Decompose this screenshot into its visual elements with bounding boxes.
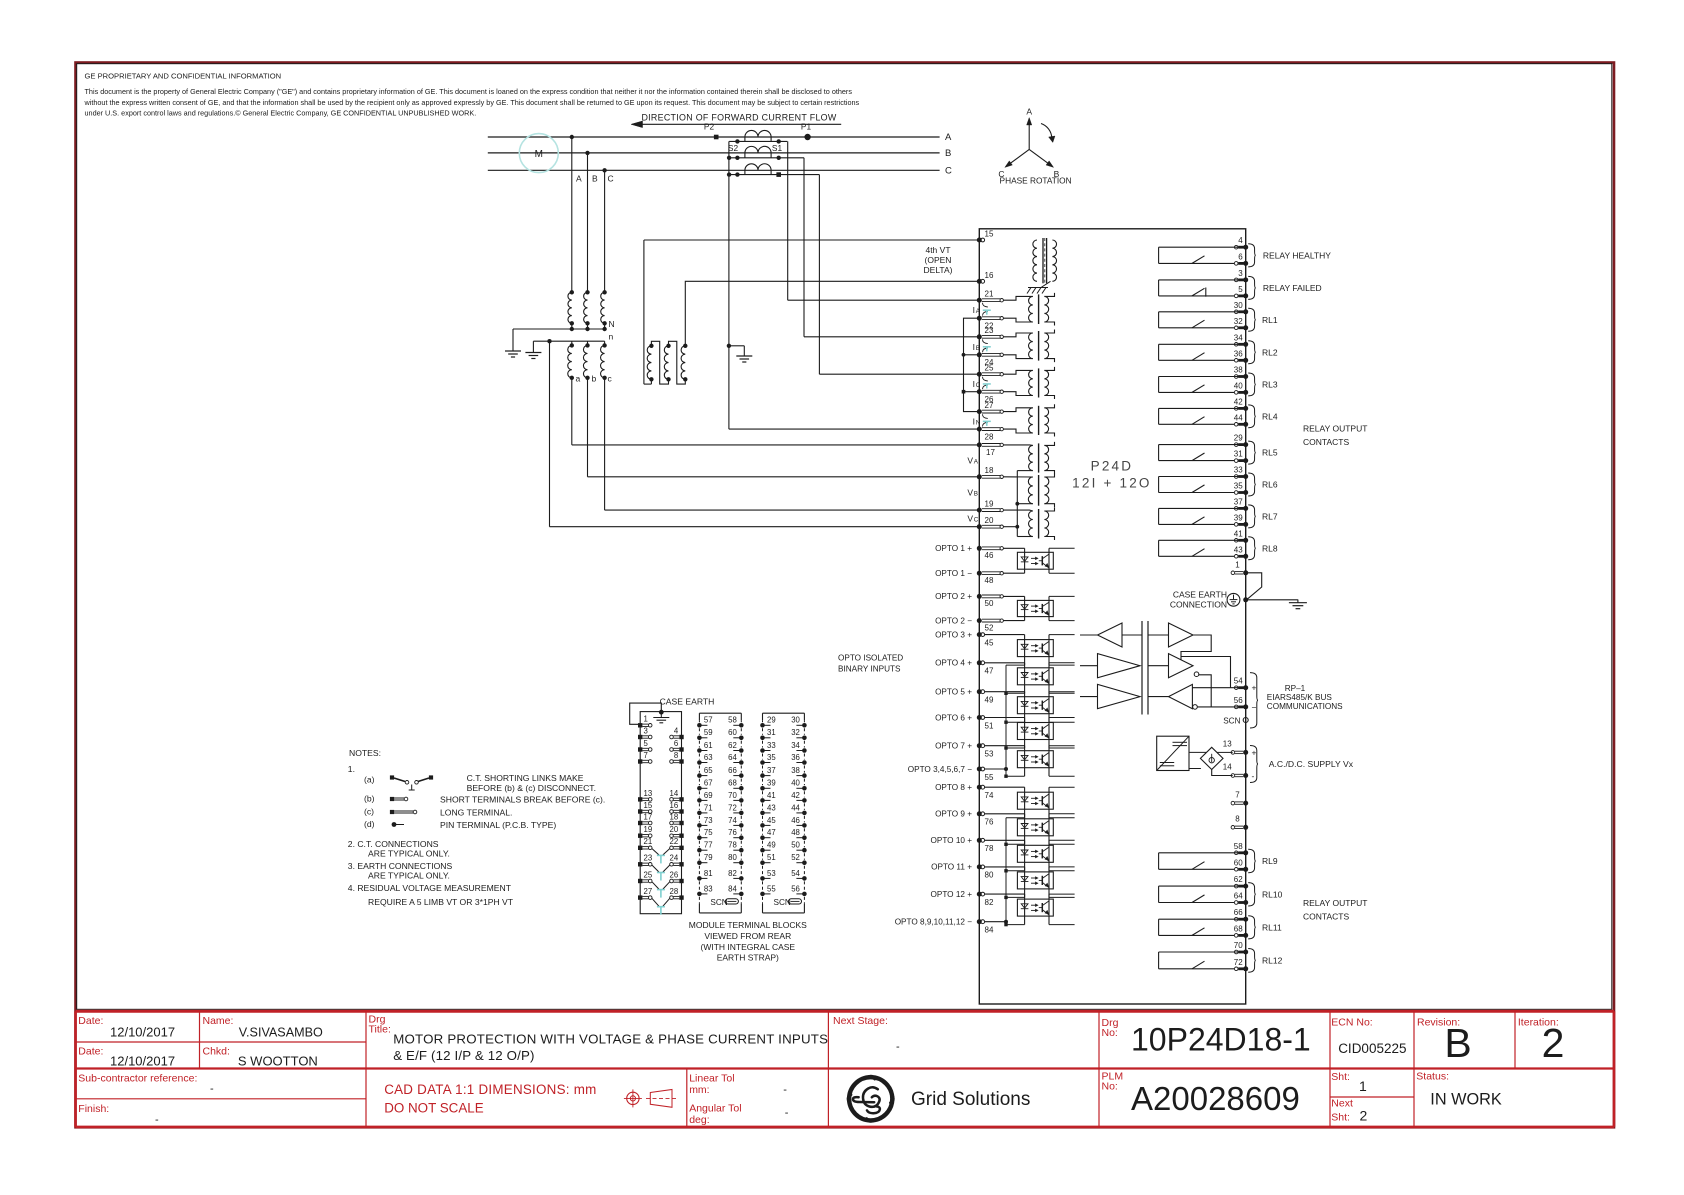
svg-text:76: 76 bbox=[728, 828, 737, 837]
svg-text:B: B bbox=[592, 174, 598, 184]
terminal 15 bbox=[977, 238, 982, 243]
svg-text:OPTO 10 +: OPTO 10 + bbox=[931, 836, 973, 845]
block 3 pin 33 bbox=[760, 748, 765, 753]
wire supply to bridge upper bbox=[1189, 751, 1206, 753]
block 3 pin 49 bbox=[760, 848, 765, 853]
relay contact RL10 terminals 62/64 bbox=[1234, 884, 1238, 888]
svg-text:82: 82 bbox=[728, 869, 737, 878]
opto input terminals 50/52 bbox=[977, 594, 982, 599]
svg-text:RELAY FAILED: RELAY FAILED bbox=[1263, 283, 1322, 293]
svg-text:OPTO 2 −: OPTO 2 − bbox=[935, 616, 972, 625]
svg-text:MODULE TERMINAL BLOCKS: MODULE TERMINAL BLOCKS bbox=[689, 920, 807, 930]
svg-text:RELAY OUTPUT: RELAY OUTPUT bbox=[1303, 424, 1367, 434]
contact RL12 bbox=[1159, 951, 1244, 953]
svg-text:29: 29 bbox=[1234, 434, 1243, 443]
svg-text:C: C bbox=[976, 382, 981, 389]
svg-text:40: 40 bbox=[1234, 381, 1243, 390]
phase rotation diagram bbox=[1028, 125, 1030, 149]
svg-text:48: 48 bbox=[791, 828, 800, 837]
svg-text:CONTACTS: CONTACTS bbox=[1303, 912, 1349, 922]
svg-text:42: 42 bbox=[791, 791, 800, 800]
block 3 pin 47 bbox=[760, 835, 765, 840]
svg-text:GE PROPRIETARY AND CONFIDENTIA: GE PROPRIETARY AND CONFIDENTIAL INFORMAT… bbox=[85, 72, 282, 81]
svg-text:78: 78 bbox=[985, 844, 994, 853]
svg-text:34: 34 bbox=[791, 741, 800, 750]
block 2 pin 79 bbox=[697, 860, 702, 865]
svg-text:30: 30 bbox=[1234, 301, 1243, 310]
svg-text:+: + bbox=[1252, 748, 1257, 758]
brace RL12 bbox=[1248, 949, 1256, 973]
svg-text:70: 70 bbox=[728, 791, 737, 800]
svg-text:(OPEN: (OPEN bbox=[925, 255, 952, 265]
brace RL1 bbox=[1248, 308, 1256, 331]
svg-text:-: - bbox=[1252, 771, 1255, 781]
svg-text:OPTO 8 +: OPTO 8 + bbox=[935, 783, 972, 792]
svg-text:+: + bbox=[1252, 683, 1257, 693]
opto input terminal 82 bbox=[977, 892, 982, 897]
opto input terminal 74 bbox=[977, 785, 982, 790]
terminal 56 bbox=[1234, 705, 1238, 709]
contact RL11 bbox=[1159, 918, 1244, 920]
svg-text:OPTO 12 +: OPTO 12 + bbox=[931, 890, 973, 899]
svg-text:DO NOT SCALE: DO NOT SCALE bbox=[384, 1101, 484, 1116]
comms isolation barrier bbox=[1141, 621, 1143, 715]
svg-text:4: 4 bbox=[674, 726, 679, 735]
svg-text:Angular Tol: Angular Tol bbox=[689, 1103, 741, 1115]
brace RL10 bbox=[1248, 883, 1256, 906]
svg-text:7: 7 bbox=[1235, 790, 1240, 799]
svg-text:43: 43 bbox=[767, 803, 776, 812]
svg-text:12I + 12O: 12I + 12O bbox=[1072, 476, 1151, 491]
contact RL2 bbox=[1159, 343, 1244, 345]
wire supply to bridge lower bbox=[1189, 768, 1201, 770]
block 3 pin 56 bbox=[802, 892, 807, 897]
block 3 pin 31 bbox=[760, 736, 765, 741]
brace RL3 bbox=[1248, 373, 1256, 396]
svg-text:66: 66 bbox=[728, 766, 737, 775]
block 3 pin 53 bbox=[760, 876, 765, 881]
svg-text:3: 3 bbox=[644, 726, 648, 735]
svg-text:P1: P1 bbox=[801, 122, 812, 132]
CT phase C secondary wire bbox=[729, 174, 819, 176]
block 2 pin 84 bbox=[739, 892, 744, 897]
contact RELAY FAILED bbox=[1159, 279, 1244, 281]
terminal 25 bbox=[977, 372, 982, 377]
svg-text:56: 56 bbox=[791, 884, 800, 893]
ground VT primary neutral bbox=[512, 329, 514, 351]
terminal 13 bbox=[1231, 751, 1235, 755]
svg-text:32: 32 bbox=[1234, 317, 1243, 326]
svg-text:N: N bbox=[976, 419, 981, 426]
svg-text:23: 23 bbox=[985, 326, 994, 335]
opto common rail bbox=[1005, 818, 1007, 925]
GE logo bbox=[849, 1077, 892, 1120]
block1 pin 23 bbox=[638, 862, 642, 866]
svg-text:49: 49 bbox=[767, 841, 776, 850]
power supply unit bbox=[1157, 736, 1189, 770]
svg-text:75: 75 bbox=[704, 828, 713, 837]
terminal 23 bbox=[977, 334, 982, 339]
svg-text:BEFORE (b) & (c) DISCONNECT.: BEFORE (b) & (c) DISCONNECT. bbox=[467, 783, 596, 793]
terminal block 3 outline bbox=[763, 712, 805, 714]
shorting link 21-22 bbox=[983, 303, 988, 307]
optocoupler OPTO at terminal 76 bbox=[985, 813, 1025, 815]
CT phase A secondary wire bbox=[729, 140, 787, 142]
svg-text:(WITH INTEGRAL CASE: (WITH INTEGRAL CASE bbox=[700, 942, 795, 952]
svg-text:NOTES:: NOTES: bbox=[349, 748, 381, 758]
svg-text:V: V bbox=[967, 455, 973, 465]
svg-text:1.: 1. bbox=[348, 764, 355, 774]
block 3 pin 40 bbox=[802, 786, 807, 791]
VT primary drop phase C bbox=[604, 170, 606, 292]
svg-text:RL6: RL6 bbox=[1262, 480, 1278, 490]
svg-text:A: A bbox=[1026, 107, 1032, 117]
block 2 pin 81 bbox=[697, 876, 702, 881]
svg-text:1: 1 bbox=[644, 715, 648, 724]
svg-text:63: 63 bbox=[704, 753, 713, 762]
svg-text:6: 6 bbox=[1238, 252, 1243, 261]
svg-text:58: 58 bbox=[1234, 842, 1243, 851]
block 3 pin 36 bbox=[802, 760, 807, 765]
svg-text:38: 38 bbox=[1234, 366, 1243, 375]
wire to terminal 14 bbox=[1212, 770, 1233, 776]
svg-text:52: 52 bbox=[985, 623, 994, 632]
svg-text:PIN TERMINAL (P.C.B. TYPE): PIN TERMINAL (P.C.B. TYPE) bbox=[440, 820, 556, 830]
terminal 21 bbox=[977, 298, 982, 303]
svg-text:a: a bbox=[576, 374, 581, 384]
block 2 pin 67 bbox=[697, 786, 702, 791]
svg-text:S WOOTTON: S WOOTTON bbox=[238, 1053, 318, 1068]
svg-text:18: 18 bbox=[670, 812, 679, 821]
wire terminal 20 to VT rail bbox=[1003, 526, 1017, 528]
VT secondary winding c bbox=[604, 341, 606, 345]
opto input terminal 78 bbox=[977, 838, 982, 843]
optocoupler OPTO 46 bbox=[1003, 547, 1024, 549]
svg-text:A: A bbox=[576, 174, 582, 184]
svg-text:RELAY OUTPUT: RELAY OUTPUT bbox=[1303, 898, 1367, 908]
brace RL11 bbox=[1248, 916, 1256, 939]
svg-text:49: 49 bbox=[985, 696, 994, 705]
block 3 pin 50 bbox=[802, 848, 807, 853]
svg-text:Sub-contractor reference:: Sub-contractor reference: bbox=[78, 1073, 197, 1085]
block1 pin 6 bbox=[679, 747, 683, 751]
svg-text:37: 37 bbox=[767, 766, 776, 775]
CT phase C S1 junction bbox=[776, 172, 781, 177]
shorting link 23-24 bbox=[983, 339, 988, 343]
brace RELAY FAILED bbox=[1248, 276, 1256, 299]
block 3 pin 39 bbox=[760, 786, 765, 791]
svg-text:73: 73 bbox=[704, 816, 713, 825]
opto common terminal 55 bbox=[977, 767, 982, 772]
block 3 pin 29 bbox=[760, 723, 765, 728]
svg-text:64: 64 bbox=[728, 753, 737, 762]
block 2 pin 59 bbox=[697, 736, 702, 741]
relay contact RL8 terminals 41/43 bbox=[1234, 539, 1238, 543]
VT secondary n bus bbox=[533, 340, 604, 342]
svg-text:4: 4 bbox=[1238, 236, 1243, 245]
opto common terminal 84 bbox=[977, 919, 982, 924]
4th VT secondary screen earth bbox=[1041, 281, 1051, 287]
block 3 pin 41 bbox=[760, 798, 765, 803]
block 3 pin 52 bbox=[802, 860, 807, 865]
block 2 pin 64 bbox=[739, 760, 744, 765]
svg-text:13: 13 bbox=[1223, 740, 1232, 749]
terminal 26 bbox=[977, 389, 982, 394]
ground VT secondary n bbox=[532, 341, 534, 352]
svg-text:−: − bbox=[1252, 703, 1257, 713]
CT phase B S1 junction bbox=[777, 156, 781, 160]
svg-text:10P24D18-1: 10P24D18-1 bbox=[1131, 1022, 1311, 1058]
svg-text:79: 79 bbox=[704, 853, 713, 862]
block1 pin 1 bbox=[638, 723, 642, 727]
svg-text:23: 23 bbox=[644, 854, 653, 863]
svg-text:48: 48 bbox=[985, 576, 994, 585]
svg-text:Finish:: Finish: bbox=[78, 1103, 109, 1115]
block1 pin 16 bbox=[679, 809, 683, 813]
svg-text:RELAY HEALTHY: RELAY HEALTHY bbox=[1263, 250, 1331, 260]
svg-text:14: 14 bbox=[1223, 763, 1232, 772]
svg-text:OPTO 8,9,10,11,12 −: OPTO 8,9,10,11,12 − bbox=[895, 918, 973, 927]
svg-text:30: 30 bbox=[791, 716, 800, 725]
svg-text:39: 39 bbox=[767, 779, 776, 788]
svg-text:61: 61 bbox=[704, 741, 713, 750]
contact RELAY HEALTHY bbox=[1159, 246, 1244, 248]
svg-text:DELTA): DELTA) bbox=[924, 265, 953, 275]
svg-text:A20028609: A20028609 bbox=[1131, 1080, 1300, 1117]
VT secondary winding a bbox=[571, 341, 573, 345]
svg-text:RL7: RL7 bbox=[1262, 511, 1278, 521]
block1 pin 17 bbox=[638, 821, 642, 825]
CT phase B coil bbox=[745, 146, 771, 153]
svg-text:under U.S. export control laws: under U.S. export control laws and regul… bbox=[85, 109, 477, 118]
svg-text:COMMUNICATIONS: COMMUNICATIONS bbox=[1267, 702, 1343, 711]
comms rx buffer bottom bbox=[1098, 684, 1141, 708]
svg-text:I: I bbox=[973, 342, 975, 352]
relay contact RL5 terminals 29/31 bbox=[1234, 443, 1238, 447]
svg-text:Name:: Name: bbox=[203, 1015, 234, 1027]
svg-text:-: - bbox=[155, 1114, 159, 1126]
opto input terminal 51 bbox=[977, 715, 982, 720]
block 3 pin 37 bbox=[760, 773, 765, 778]
open delta interconnection 2 bbox=[669, 341, 686, 384]
svg-text:41: 41 bbox=[1234, 529, 1243, 538]
svg-text:39: 39 bbox=[1234, 513, 1243, 522]
svg-text:OPTO 11 +: OPTO 11 + bbox=[931, 863, 972, 872]
VT primary neutral bus N bbox=[513, 328, 605, 330]
block 2 pin 71 bbox=[697, 811, 702, 816]
brace comms group bbox=[1250, 673, 1258, 728]
block 2 pin 83 bbox=[697, 892, 702, 897]
svg-text:1: 1 bbox=[1235, 561, 1240, 570]
terminal 16 bbox=[977, 279, 982, 284]
svg-text:OPTO 4 +: OPTO 4 + bbox=[935, 659, 972, 668]
block 2 pin 74 bbox=[739, 823, 744, 828]
svg-text:44: 44 bbox=[791, 803, 800, 812]
optocoupler OPTO at terminal 74 bbox=[985, 786, 1025, 788]
svg-text:C: C bbox=[974, 517, 979, 524]
terminal block 1 outline bbox=[640, 712, 681, 914]
svg-text:RL12: RL12 bbox=[1262, 955, 1283, 965]
svg-text:54: 54 bbox=[1234, 677, 1243, 686]
block 2 pin 60 bbox=[739, 736, 744, 741]
terminal 22 bbox=[977, 316, 982, 321]
svg-text:84: 84 bbox=[985, 926, 994, 935]
svg-text:35: 35 bbox=[1234, 482, 1243, 491]
CT phase B secondary wire bbox=[729, 157, 804, 159]
CT phase C S2 junction bbox=[735, 172, 739, 176]
svg-text:72: 72 bbox=[728, 803, 737, 812]
svg-text:IN WORK: IN WORK bbox=[1430, 1091, 1502, 1109]
block 3 pin 45 bbox=[760, 823, 765, 828]
terminal 8 bbox=[1231, 826, 1235, 830]
svg-text:V: V bbox=[967, 487, 973, 497]
svg-text:I: I bbox=[973, 416, 975, 426]
opto input terminal 45 bbox=[977, 632, 982, 637]
block 3 pin 51 bbox=[760, 860, 765, 865]
svg-text:RP–1: RP–1 bbox=[1285, 684, 1306, 693]
block 3 pin 55 bbox=[760, 892, 765, 897]
svg-text:82: 82 bbox=[985, 898, 994, 907]
optocoupler OPTO at terminal 49 bbox=[985, 691, 1025, 693]
svg-text:69: 69 bbox=[704, 791, 713, 800]
motor M bbox=[519, 134, 558, 173]
svg-text:22: 22 bbox=[670, 837, 679, 846]
svg-text:CID005225: CID005225 bbox=[1338, 1041, 1406, 1056]
block 3 pin 32 bbox=[802, 736, 807, 741]
relay contact RL12 terminals 70/72 bbox=[1234, 950, 1238, 954]
terminal 24 bbox=[977, 352, 982, 357]
svg-text:15: 15 bbox=[644, 801, 653, 810]
svg-text:(d): (d) bbox=[364, 819, 375, 829]
relay contact RELAY FAILED terminals 3/5 bbox=[1234, 278, 1238, 282]
block 3 pin 54 bbox=[802, 876, 807, 881]
svg-text:RL11: RL11 bbox=[1262, 922, 1282, 932]
terminal SCN bbox=[1243, 718, 1248, 723]
wire CT C S1 to terminal 25 bbox=[818, 175, 820, 375]
svg-text:4th VT: 4th VT bbox=[925, 245, 950, 255]
svg-text:VIEWED FROM REAR: VIEWED FROM REAR bbox=[704, 931, 791, 941]
wire CT A S1 to terminal 21 bbox=[787, 141, 789, 300]
terminal 1 case earth bbox=[1231, 571, 1235, 575]
contact RL5 bbox=[1159, 444, 1244, 446]
svg-text:67: 67 bbox=[704, 779, 713, 788]
terminal 18 bbox=[977, 474, 982, 479]
svg-text:3. EARTH CONNECTIONS: 3. EARTH CONNECTIONS bbox=[348, 861, 453, 871]
block 3 pin 42 bbox=[802, 798, 807, 803]
open delta winding 3 bbox=[683, 344, 687, 348]
svg-text:Next: Next bbox=[1331, 1098, 1353, 1110]
voltage transformer VC bbox=[1003, 509, 1033, 512]
wire to terminal 54 bbox=[1192, 687, 1243, 689]
svg-text:mm:: mm: bbox=[689, 1084, 709, 1096]
block1 CT shorting link bbox=[652, 898, 659, 906]
CT phase B S2 junction bbox=[735, 156, 739, 160]
current input transformer IB bbox=[1003, 333, 1033, 337]
svg-text:CASE EARTH: CASE EARTH bbox=[1173, 590, 1227, 600]
svg-text:46: 46 bbox=[985, 551, 994, 560]
relay contact RL9 terminals 58/60 bbox=[1234, 851, 1238, 855]
svg-text:LONG TERMINAL.: LONG TERMINAL. bbox=[440, 808, 512, 818]
svg-text:REQUIRE A 5 LIMB VT OR 3: REQUIRE A 5 LIMB VT OR 3*1PH VT bbox=[368, 897, 514, 907]
svg-text:60: 60 bbox=[728, 728, 737, 737]
svg-text:55: 55 bbox=[985, 773, 994, 782]
svg-text:CAD DATA 1:1 DIMENSIONS: mm: CAD DATA 1:1 DIMENSIONS: mm bbox=[384, 1082, 596, 1097]
contact RL8 bbox=[1159, 539, 1244, 541]
svg-text:PHASE ROTATION: PHASE ROTATION bbox=[1000, 176, 1072, 186]
svg-text:72: 72 bbox=[1234, 958, 1243, 967]
svg-text:52: 52 bbox=[791, 853, 800, 862]
opto input terminal 80 bbox=[977, 864, 982, 869]
projection symbol bbox=[627, 1092, 639, 1104]
svg-text:without the express written co: without the express written consent of G… bbox=[84, 98, 860, 107]
svg-text:74: 74 bbox=[985, 791, 994, 800]
block1 pin 8 bbox=[679, 759, 683, 763]
svg-text:RL9: RL9 bbox=[1262, 856, 1278, 866]
svg-text:n: n bbox=[609, 332, 614, 342]
svg-text:62: 62 bbox=[1234, 875, 1243, 884]
svg-text:40: 40 bbox=[791, 779, 800, 788]
svg-text:54: 54 bbox=[791, 869, 800, 878]
contact RL4 bbox=[1159, 407, 1244, 409]
svg-text:32: 32 bbox=[791, 728, 800, 737]
junction n drop bbox=[547, 339, 551, 343]
svg-text:RL1: RL1 bbox=[1262, 315, 1278, 325]
shorting link 25-26 bbox=[983, 377, 988, 381]
shorting link teal mark bbox=[983, 346, 991, 348]
block1 CT shorting link bbox=[652, 849, 659, 855]
optocoupler OPTO at terminal 51 bbox=[985, 717, 1025, 719]
svg-text:OPTO 3,4,5,6,7 −: OPTO 3,4,5,6,7 − bbox=[908, 765, 972, 774]
svg-text:M: M bbox=[535, 149, 543, 160]
terminal 19 bbox=[977, 508, 982, 513]
svg-text:N: N bbox=[609, 319, 615, 329]
svg-text:OPTO 1 −: OPTO 1 − bbox=[935, 569, 972, 578]
contact RL9 bbox=[1159, 852, 1244, 854]
junction common drop B bbox=[727, 156, 731, 160]
optocoupler OPTO at terminal 47 bbox=[985, 662, 1025, 664]
terminal 28 bbox=[977, 427, 982, 432]
junction CT common ground tap bbox=[727, 344, 731, 348]
block 3 pin 30 bbox=[802, 723, 807, 728]
brace RL6 bbox=[1248, 473, 1256, 496]
relay contact RELAY HEALTHY terminals 4/6 bbox=[1234, 245, 1238, 249]
comms driver mid bbox=[1098, 654, 1141, 678]
ground CT secondary earth bbox=[729, 345, 744, 347]
block1 pin 21 bbox=[638, 846, 642, 850]
svg-text:SCN: SCN bbox=[1223, 716, 1240, 725]
block 3 pin 48 bbox=[802, 835, 807, 840]
svg-text:81: 81 bbox=[704, 869, 713, 878]
terminal 17 bbox=[977, 442, 982, 447]
CT phase B secondary legs bbox=[744, 153, 746, 158]
shorting link teal mark bbox=[983, 383, 991, 385]
svg-text:45: 45 bbox=[985, 638, 994, 647]
relay case outline P24D bbox=[979, 229, 1245, 1004]
svg-text:B: B bbox=[1444, 1020, 1471, 1066]
svg-text:B: B bbox=[976, 345, 980, 352]
wire open delta to terminal 16 bbox=[685, 281, 979, 346]
svg-text:BINARY INPUTS: BINARY INPUTS bbox=[838, 665, 901, 674]
wire case earth to ground bbox=[1246, 599, 1298, 601]
svg-text:OPTO 7 +: OPTO 7 + bbox=[935, 742, 972, 751]
title block outer bbox=[76, 1010, 1615, 1013]
case earth block junction bbox=[659, 710, 664, 715]
block 2 pin 69 bbox=[697, 798, 702, 803]
svg-text:OPTO 9 +: OPTO 9 + bbox=[935, 810, 972, 819]
terminal 27 bbox=[977, 409, 982, 414]
terminal 14 bbox=[1231, 774, 1235, 778]
svg-text:76: 76 bbox=[985, 818, 994, 827]
